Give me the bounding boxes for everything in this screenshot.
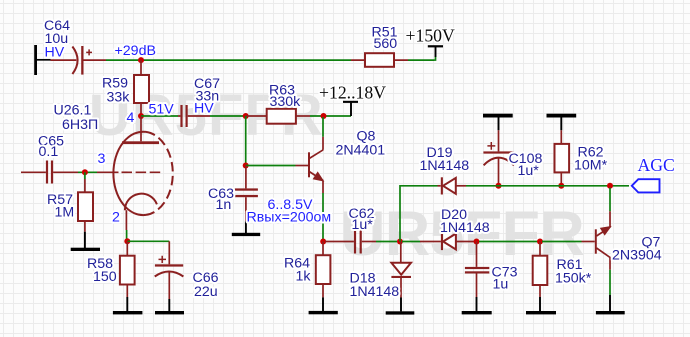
svg-text:1M: 1M xyxy=(55,205,75,221)
node +29dB junction xyxy=(138,57,144,63)
svg-text:+150V: +150V xyxy=(406,26,456,46)
resistor R62 xyxy=(555,130,570,183)
capacitor C108 xyxy=(483,130,514,183)
ground under R58 xyxy=(113,297,142,314)
node R62 junction xyxy=(558,183,564,189)
wire C73 node to R61 node xyxy=(479,241,538,243)
node C108 junction xyxy=(496,183,502,189)
wire C62 to D18 node xyxy=(376,241,397,243)
transistor Q8 2N4401 xyxy=(296,137,324,193)
ground under C66 xyxy=(155,299,184,314)
wire +29dB rail xyxy=(106,59,351,61)
svg-text:330k: 330k xyxy=(270,94,302,110)
svg-text:+29dB: +29dB xyxy=(115,43,156,59)
wire Q7 emitter up xyxy=(609,188,611,212)
node C67/R63 junction xyxy=(243,113,249,119)
resistor R59 xyxy=(134,60,149,116)
wire C65 node xyxy=(78,171,97,173)
node Q7 emitter junction xyxy=(607,183,613,189)
capacitor C65 xyxy=(21,161,78,184)
svg-text:33k: 33k xyxy=(107,90,131,106)
resistor R51 xyxy=(351,53,408,67)
node C63/Q8-base junction xyxy=(243,163,249,169)
resistor R57 xyxy=(78,172,93,231)
wire pin4 to C67 xyxy=(141,115,178,117)
node R61 junction xyxy=(537,239,543,245)
svg-text:150k*: 150k* xyxy=(555,271,592,287)
svg-text:1N4148: 1N4148 xyxy=(350,284,400,300)
resistor R58 xyxy=(120,241,135,297)
svg-text:3: 3 xyxy=(98,151,106,167)
ground bar above C108 xyxy=(483,114,513,131)
power +12..18V symbol xyxy=(343,101,358,116)
svg-text:22u: 22u xyxy=(194,284,218,300)
svg-text:+12..18V: +12..18V xyxy=(319,82,386,102)
wire D19 to C108 node xyxy=(466,185,496,187)
svg-text:2N3904: 2N3904 xyxy=(612,247,662,263)
node grid junction xyxy=(82,169,88,175)
svg-text:2: 2 xyxy=(112,210,120,226)
capacitor C67 xyxy=(178,105,210,127)
svg-text:1u*: 1u* xyxy=(518,163,540,179)
wire AGC rail xyxy=(496,185,629,187)
ground under R64 xyxy=(309,297,338,314)
input terminal (top left) xyxy=(34,45,50,75)
wire cathode node to C66 xyxy=(127,240,169,242)
wire to Q8 base xyxy=(246,165,296,167)
wire Q8 emitter down xyxy=(322,193,324,240)
node C62 left junction xyxy=(320,239,326,245)
diode D20 xyxy=(420,233,474,250)
node C73 junction xyxy=(474,239,480,245)
svg-text:HV: HV xyxy=(45,45,65,61)
power +150V symbol xyxy=(428,45,443,57)
diode D18 xyxy=(391,242,411,298)
wire C67 to R63 node xyxy=(210,115,246,117)
svg-text:10M*: 10M* xyxy=(574,157,608,173)
tube U26.1 6N3P triode xyxy=(97,116,173,230)
ground under Q7 xyxy=(596,295,625,314)
wire Q7 collector down xyxy=(609,270,611,295)
transistor Q7 2N3904 xyxy=(582,211,611,269)
resistor R61 xyxy=(533,242,548,298)
svg-text:HV: HV xyxy=(194,101,214,117)
wire D20 row xyxy=(402,241,420,243)
ground under R61 xyxy=(526,297,556,314)
node pin4 junction xyxy=(138,113,144,119)
svg-text:560: 560 xyxy=(374,36,398,52)
svg-text:Rвых=200ом: Rвых=200ом xyxy=(247,209,332,225)
ground under C73 xyxy=(462,297,492,314)
svg-text:150: 150 xyxy=(93,269,117,285)
wire cathode to R58 node xyxy=(126,230,128,239)
AGC connector xyxy=(632,179,660,192)
svg-text:6Н3П: 6Н3П xyxy=(62,117,98,133)
wire Q8 collector to rail xyxy=(322,117,324,137)
diode D19 xyxy=(438,177,467,194)
wire R63 to +12..18V node xyxy=(310,115,351,117)
wire to +150V xyxy=(408,57,436,61)
capacitor C63 xyxy=(235,166,258,222)
ground under C63 xyxy=(232,221,260,236)
svg-text:1N4148: 1N4148 xyxy=(420,158,470,174)
resistor R64 xyxy=(316,242,331,298)
resistor R63 xyxy=(246,109,310,124)
node D18 junction xyxy=(397,239,403,245)
svg-text:AGC: AGC xyxy=(638,155,675,175)
svg-text:4: 4 xyxy=(127,110,135,126)
svg-text:1u*: 1u* xyxy=(352,217,374,233)
wire R61 node to Q7 base xyxy=(542,241,582,243)
ground bar above R62 xyxy=(547,114,577,131)
capacitor C73 xyxy=(465,242,489,298)
capacitor C64 xyxy=(51,46,107,75)
svg-text:51V: 51V xyxy=(149,102,175,118)
svg-text:1u: 1u xyxy=(493,276,509,292)
wire node to Q8 base row xyxy=(245,116,247,166)
svg-text:1N4148: 1N4148 xyxy=(440,220,490,236)
node cathode junction xyxy=(124,238,130,244)
svg-text:1n: 1n xyxy=(216,197,232,213)
ground under R57 xyxy=(71,232,100,251)
node R63/Q8 junction xyxy=(321,113,327,119)
svg-text:0.1: 0.1 xyxy=(39,144,59,160)
svg-text:2N4401: 2N4401 xyxy=(336,143,386,159)
svg-text:1k: 1k xyxy=(296,269,312,285)
ground under D18 xyxy=(386,298,415,315)
capacitor C62 xyxy=(325,230,376,254)
wire vertical D19/D20 link xyxy=(400,186,438,242)
capacitor C66 xyxy=(155,241,184,299)
